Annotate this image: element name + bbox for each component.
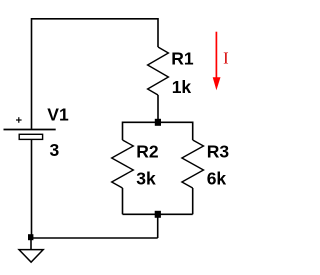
svg-text:V1: V1 (47, 105, 69, 125)
wire: bottom node down to ground rail (157, 214, 159, 238)
wire: left vertical from battery top up, top rail, right vertical down to R1 (32, 19, 159, 129)
resistor R2 (112, 140, 134, 188)
svg-text:1k: 1k (172, 77, 192, 97)
wire: R1 bottom to parallel top node (157, 95, 159, 122)
resistor R3 (182, 140, 204, 188)
resistor R1 (148, 47, 169, 95)
battery V1 top plate (4, 129, 56, 131)
wire: parallel section bottom rail (123, 213, 193, 215)
wire: right branch top stub (192, 122, 194, 141)
svg-text:R2: R2 (136, 142, 159, 162)
battery V1 plus sign (16, 117, 22, 123)
current arrow I (213, 32, 221, 91)
svg-text:3k: 3k (136, 168, 156, 188)
battery V1 bottom plate (19, 134, 42, 139)
ground (19, 250, 43, 263)
wire: battery bottom to ground node (31, 140, 33, 238)
wire: ground stub (30, 238, 32, 250)
wire: left branch bottom stub (122, 188, 124, 214)
svg-text:R3: R3 (207, 142, 230, 162)
svg-text:I: I (223, 49, 229, 68)
wire: left branch top stub (122, 122, 124, 141)
junction: bottom node of R2/R3 (155, 211, 161, 218)
junction: ground node (28, 234, 33, 240)
wire: right branch bottom stub (192, 188, 194, 214)
wire: parallel section top rail (123, 121, 193, 123)
svg-text:3: 3 (50, 140, 60, 160)
wire: bottom rail to ground node (32, 237, 158, 239)
svg-text:R1: R1 (171, 49, 194, 69)
junction: top node of R2/R3 (155, 119, 161, 126)
svg-text:6k: 6k (207, 168, 227, 188)
